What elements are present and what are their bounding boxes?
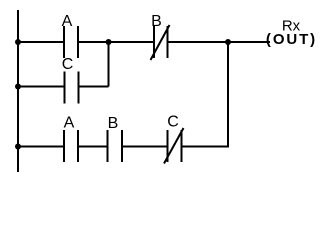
svg-text:B: B	[108, 115, 119, 132]
svg-text:B: B	[151, 13, 162, 30]
wire: contact C to riser	[78, 86, 109, 88]
svg-text:A: A	[62, 13, 73, 30]
wire: rung2 contact A to contact B	[78, 146, 108, 148]
contact A (NO) rung2	[64, 130, 78, 162]
wire: rung2 rail to contact A	[18, 146, 64, 148]
node: rail / rung 2 junction	[15, 144, 21, 150]
wire: contact A to node J1 and to contact B	[78, 41, 154, 43]
contact C (NO) parallel branch	[65, 72, 79, 104]
svg-text:C: C	[167, 114, 179, 131]
svg-text:(OUT): (OUT)	[266, 31, 317, 48]
node J2: rung2 rejoin	[225, 39, 231, 45]
wire: branch riser up to node J1	[108, 42, 110, 87]
contact B (NC) rung1	[151, 25, 170, 60]
contact A (NO) rung1	[64, 26, 78, 58]
wire: rung1 rail to contact A	[18, 41, 64, 43]
wire: contact B to output coil	[168, 41, 271, 43]
contact C (NC) rung2	[164, 128, 184, 164]
contact B (NO) rung2	[108, 130, 123, 162]
wire: C-branch rail to contact C	[18, 86, 64, 88]
node: rail / C-branch junction	[15, 84, 21, 90]
wire: rung2 contact B to contact C	[122, 146, 168, 148]
left power rail	[17, 10, 19, 172]
svg-text:A: A	[64, 115, 75, 132]
node: rail / rung 1 junction	[15, 39, 21, 45]
node J1: parallel branch rejoin	[106, 39, 112, 45]
wire: rung2 riser and bottom run to contact C	[182, 42, 229, 147]
svg-text:C: C	[62, 56, 74, 73]
